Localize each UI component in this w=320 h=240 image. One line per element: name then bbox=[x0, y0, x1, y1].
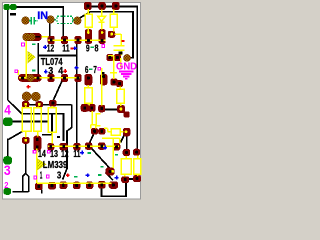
wire: green pad4 to resistor R3 left edge bbox=[13, 121, 48, 123]
pad R_gnd bottom bbox=[117, 105, 125, 113]
red plus marks bbox=[27, 69, 70, 177]
resistor R2 leads bbox=[37, 107, 39, 137]
svg-text:11: 11 bbox=[62, 43, 70, 54]
holes TL074 row2 bbox=[50, 77, 53, 80]
wire: top pads P1-P2-P3 to right edge down to pad B top bbox=[91, 7, 137, 150]
pin labels TL074 row2 bbox=[48, 65, 97, 77]
pin labels LM339 row2 bbox=[40, 170, 62, 181]
wire: capsule1 right to row1 pad bbox=[42, 36, 49, 38]
wire: yellow x36.8 vertical bbox=[36, 148, 38, 183]
wire: pad_L to pad_R horizontal bbox=[29, 104, 72, 106]
wire: x52 vertical with foot bbox=[42, 114, 52, 135]
svg-text:4: 4 bbox=[4, 103, 11, 118]
pad_L middle bbox=[22, 101, 29, 108]
wire: R_h pad legs down bbox=[121, 136, 127, 150]
wire: capsule1 long vertical down bbox=[25, 39, 27, 80]
diode D1 lead top bbox=[101, 10, 103, 17]
wire: via_a stem to row1 pad2 bbox=[49, 23, 51, 37]
capacitor C3 top lead bbox=[115, 34, 122, 45]
wire: capsule2 msq lead bbox=[17, 70, 19, 75]
resistor R_t2 leads bbox=[113, 10, 115, 32]
wire: GND-net yellow T bbox=[108, 56, 117, 79]
wire: stem below LM row2 pad1b bbox=[41, 190, 43, 194]
resistor R_h body bbox=[111, 129, 120, 136]
LM339 row1 tall blob col2 bbox=[33, 136, 41, 151]
resistor R1 leads bbox=[25, 106, 27, 138]
TL074 row1 pads bbox=[48, 36, 55, 44]
resistor R_in dashed body bbox=[57, 16, 73, 23]
connector pin numbers magenta bbox=[4, 103, 11, 190]
pad GND bbox=[116, 80, 123, 87]
pad_R middle bbox=[49, 100, 57, 107]
resistor R1 body bbox=[22, 108, 31, 132]
wire: bottom U trace bbox=[102, 183, 127, 196]
diode D1 lead bottom bbox=[101, 22, 103, 30]
svg-text:3: 3 bbox=[4, 163, 11, 178]
pad A bbox=[121, 176, 129, 183]
wire: yellow stub below pad c117.5 bbox=[120, 58, 122, 68]
board canvas bbox=[3, 3, 141, 200]
TL074 row2 stacked pad blob col6 bbox=[100, 74, 108, 86]
green minus marks bbox=[32, 44, 118, 178]
LM339 row2 yellow rail bbox=[37, 182, 112, 184]
wire: diagonal from left edge to middle horizontal bbox=[8, 100, 64, 141]
wire: diagonal TL074 row2 pad4 to pad_R bbox=[53, 81, 62, 101]
resistor R_t1 body bbox=[85, 14, 92, 27]
holes bottom right top pads bbox=[125, 151, 128, 154]
LM339 row2 pads bbox=[35, 183, 43, 191]
resistor R4 lead top bbox=[87, 85, 89, 88]
capacitor C_in plates bbox=[31, 17, 34, 24]
wire: x71.7 vertical with jog bbox=[63, 105, 72, 180]
comparator U2 pin1 marker bbox=[38, 159, 47, 170]
magenta open squares bbox=[15, 43, 105, 179]
resistor R4 lead bottom bbox=[88, 103, 90, 106]
resistor R_gnd body bbox=[117, 89, 125, 103]
holes LM339 row1 bbox=[36, 138, 39, 141]
resistor R3 body bbox=[48, 108, 56, 132]
black cap square below C3 bbox=[119, 52, 123, 55]
wire: link pads A-B bbox=[129, 178, 134, 180]
via capsule1 left bbox=[23, 33, 31, 41]
wire: yellow staple net to pad c110 bbox=[102, 138, 120, 168]
tall pad stack col6 bbox=[99, 29, 106, 44]
pin labels LM339 row1 bbox=[38, 149, 81, 160]
via capsule1 mid bbox=[28, 33, 36, 41]
resistor R3 leads bbox=[51, 106, 53, 144]
small pad piece at (126.5,114.5) bbox=[124, 112, 130, 118]
wire: short diagonal pad c94.5 to pad c88.5 bbox=[89, 135, 94, 145]
capsule component C4 body bbox=[23, 33, 42, 41]
svg-text:1: 1 bbox=[40, 171, 43, 182]
pad R_h right bbox=[123, 128, 130, 137]
pad B bbox=[133, 175, 141, 182]
svg-text:12: 12 bbox=[47, 43, 55, 54]
diode D1 triangle bbox=[98, 16, 106, 21]
resistor R_h right lead bbox=[120, 131, 123, 133]
green pad 2 bbox=[3, 188, 11, 195]
pad P3 bbox=[112, 2, 120, 10]
svg-text:IN: IN bbox=[37, 10, 48, 22]
via_b bbox=[73, 17, 81, 25]
green pad G2 bbox=[10, 4, 17, 10]
green pad 4 bbox=[3, 117, 13, 126]
holes top pads bbox=[87, 4, 90, 7]
svg-text:13: 13 bbox=[50, 149, 58, 160]
svg-text:12: 12 bbox=[61, 149, 69, 160]
resistor R_b body bbox=[134, 159, 141, 175]
yellow hole dots bbox=[25, 31, 128, 173]
wire: yellow bracket detour bbox=[96, 114, 100, 126]
LM339 row1 yellow rail bbox=[48, 145, 119, 147]
hole pad c110 bbox=[109, 170, 112, 173]
wire: connector pad2 to LM339 pin1 bbox=[13, 141, 29, 193]
svg-text:9: 9 bbox=[86, 43, 90, 54]
via middle left 1 bbox=[22, 92, 31, 101]
green pad 3 bbox=[3, 156, 12, 164]
via_0 bbox=[22, 17, 30, 25]
wire: column-4 vertical pin4-pin11 bbox=[76, 44, 78, 146]
via gnd bbox=[123, 54, 130, 61]
svg-text:4: 4 bbox=[58, 66, 63, 77]
wire: TL074 column1 vertical bbox=[37, 43, 39, 75]
holes pads c88 c97.5 bbox=[93, 130, 96, 133]
svg-text:3: 3 bbox=[48, 66, 53, 77]
wire: black stripe across capsule C4 bbox=[24, 36, 40, 38]
svg-text:2: 2 bbox=[4, 180, 8, 190]
resistor R_t2 body bbox=[110, 14, 117, 27]
pin labels TL074 row1 bbox=[47, 43, 99, 54]
svg-text:6: 6 bbox=[85, 65, 89, 76]
wire: diagonal to LM row2 pad bbox=[106, 173, 114, 181]
pad near GND cluster 2 bbox=[114, 54, 121, 61]
resistor R_gnd lead top bbox=[119, 87, 121, 90]
svg-text:7: 7 bbox=[93, 65, 97, 76]
svg-text:11: 11 bbox=[73, 149, 80, 160]
holes TL074 row1 bbox=[50, 39, 53, 42]
black minus top left bbox=[10, 13, 16, 16]
wire: green pad3 vertical bbox=[7, 139, 9, 157]
resistor R_t1 leads bbox=[87, 9, 89, 31]
red minus marks bbox=[70, 40, 124, 49]
holes middle pads bbox=[52, 102, 55, 105]
wire: via_b diagonal to inner right vertical down to via_gnd bbox=[79, 12, 133, 58]
pad c(110,171.5) big bbox=[106, 168, 115, 176]
wire: yellow from blob c103.6 down bbox=[101, 68, 103, 106]
resistor R_a body bbox=[121, 159, 131, 175]
wire: long diagonal to pad bottom right bbox=[87, 143, 111, 169]
op-amp U1 pin1 marker bbox=[28, 51, 36, 63]
pad right of cap (c114,82) bbox=[111, 79, 118, 86]
black square under blob bbox=[102, 72, 105, 74]
holes capsules bbox=[21, 77, 24, 80]
capacitor C_in leads bbox=[29, 20, 38, 22]
pad P2 bbox=[98, 2, 106, 10]
blue plus marks bbox=[43, 45, 118, 179]
background frame bbox=[0, 0, 147, 205]
resistor R_b leads bbox=[137, 156, 139, 177]
wire: TL074 row1 yellow rail bbox=[48, 39, 106, 41]
svg-text:LM339: LM339 bbox=[43, 160, 68, 171]
capacitor C3 bottom lead bbox=[120, 51, 122, 56]
holes LM339 row2 bbox=[37, 185, 40, 188]
R4 bottom pad pair bbox=[81, 104, 89, 112]
capacitor C3 plates bbox=[114, 46, 125, 50]
pad c(136.6,152.2) bbox=[133, 149, 140, 156]
pad_M middle bbox=[36, 101, 43, 107]
svg-text:8: 8 bbox=[95, 43, 99, 54]
black minus LM339 bbox=[57, 136, 60, 138]
svg-text:3: 3 bbox=[57, 170, 62, 181]
svg-text:14: 14 bbox=[38, 149, 46, 160]
resistor R_a leads bbox=[125, 156, 127, 177]
wire: TL074 middle horizontal bbox=[38, 55, 76, 57]
wire: pad R_gnd-bottom west bbox=[104, 109, 118, 111]
pad c94.5 bbox=[91, 128, 98, 135]
holes pads A B bbox=[124, 178, 127, 181]
resistor R_in leads bbox=[54, 19, 75, 21]
pad R_t2 bottom bbox=[108, 31, 116, 38]
pad below blob c101.7 bbox=[98, 105, 105, 113]
resistor R4 body bbox=[85, 88, 93, 103]
pad near GND cluster 1 bbox=[107, 54, 114, 61]
resistor R_gnd lead bottom bbox=[120, 103, 122, 106]
LM339 row1 R1-bottom pad bbox=[22, 137, 30, 144]
svg-text:GND: GND bbox=[116, 61, 137, 73]
ground symbol bars bbox=[119, 71, 134, 73]
wire: green pad G2 to via column (net IN shield) bbox=[17, 7, 64, 37]
TL074 row2 pads bbox=[48, 74, 55, 82]
resistor R_h left lead jog bbox=[104, 128, 111, 131]
capsule component C5 body row2 bbox=[18, 74, 42, 82]
pad c(126.5,152.5) bbox=[123, 149, 131, 156]
LM339 row1 pads bbox=[47, 143, 54, 151]
via middle left 2 bbox=[31, 92, 40, 101]
TL074 row2 stacked pad blob col5 bbox=[84, 74, 92, 86]
pad c101.5 bbox=[98, 128, 105, 135]
via capsule2 mid bbox=[27, 74, 35, 82]
wire: yellow lead down from pad pair bbox=[91, 111, 96, 129]
wire: diagonal left to R1 bottom pad bbox=[8, 131, 23, 139]
wire: TL074 row2 yellow rail bbox=[19, 77, 80, 79]
pad P1 bbox=[84, 2, 92, 10]
diode D1 cathode bar bbox=[99, 21, 105, 23]
green pad G1 bbox=[3, 4, 9, 10]
via_a bbox=[47, 16, 55, 24]
resistor R2 body bbox=[34, 108, 42, 132]
tall pad stack col5 bbox=[85, 29, 92, 44]
wire: left edge vertical from green pads bbox=[7, 10, 9, 101]
